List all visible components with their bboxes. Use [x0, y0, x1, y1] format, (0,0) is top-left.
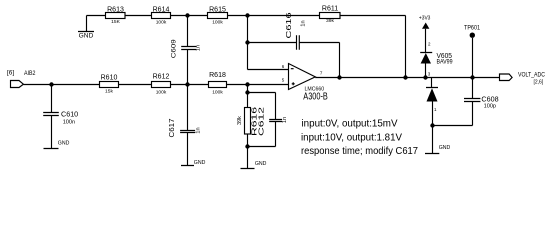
svg-text:R616: R616	[252, 107, 259, 136]
svg-text:39k: 39k	[237, 116, 243, 125]
svg-text:R610: R610	[101, 75, 118, 82]
svg-text:R614: R614	[153, 6, 170, 13]
svg-text:15K: 15K	[111, 19, 120, 25]
svg-text:GND: GND	[58, 141, 70, 147]
svg-text:39k: 39k	[326, 18, 334, 24]
svg-text:GND: GND	[194, 160, 206, 166]
svg-text:GND: GND	[439, 145, 451, 151]
svg-text:A300-B: A300-B	[303, 92, 328, 103]
svg-text:100p: 100p	[484, 104, 496, 110]
svg-text:C610: C610	[61, 109, 78, 118]
svg-text:GND: GND	[255, 161, 267, 167]
svg-text:C616: C616	[284, 13, 293, 39]
svg-text:1n: 1n	[196, 45, 202, 51]
svg-text:R618: R618	[209, 72, 226, 79]
svg-text:response time; modify C617: response time; modify C617	[301, 146, 418, 157]
svg-text:VOLT_ADC: VOLT_ADC	[518, 72, 545, 79]
svg-text:R613: R613	[107, 6, 124, 13]
svg-text:100k: 100k	[156, 89, 167, 95]
svg-text:1n: 1n	[301, 20, 307, 26]
svg-text:input:0V, output:15mV: input:0V, output:15mV	[302, 118, 398, 129]
svg-text:+3V3: +3V3	[419, 16, 431, 22]
svg-text:15k: 15k	[105, 89, 113, 95]
svg-text:C608: C608	[481, 95, 498, 104]
svg-text:100k: 100k	[212, 20, 223, 26]
svg-text:1n: 1n	[196, 127, 202, 133]
svg-text:R615: R615	[209, 6, 226, 13]
svg-text:1n: 1n	[282, 117, 288, 123]
svg-text:C609: C609	[170, 39, 177, 58]
svg-text:R612: R612	[153, 74, 170, 81]
svg-text:100n: 100n	[63, 120, 75, 126]
svg-text:100k: 100k	[156, 20, 167, 26]
svg-text:[2,6]: [2,6]	[534, 79, 544, 85]
svg-text:TP601: TP601	[464, 25, 480, 32]
svg-text:C617: C617	[169, 118, 176, 137]
svg-text:R611: R611	[322, 6, 338, 13]
svg-text:[6]: [6]	[7, 70, 14, 77]
svg-text:C612: C612	[259, 107, 266, 136]
svg-text:BAV99: BAV99	[437, 60, 454, 66]
svg-text:100k: 100k	[212, 90, 223, 96]
svg-text:AIB2: AIB2	[24, 70, 36, 77]
svg-text:input:10V, output:1.81V: input:10V, output:1.81V	[301, 132, 402, 143]
svg-text:GND: GND	[79, 32, 94, 39]
